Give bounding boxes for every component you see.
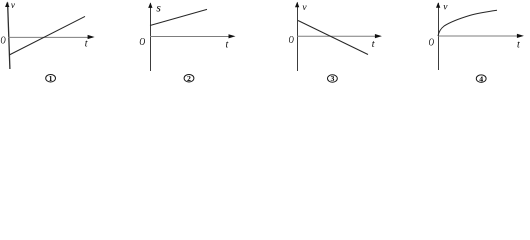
label circled 1 [46,74,56,82]
graph 3 v axis arrowhead [295,2,299,8]
graph 3 t axis [297,35,378,37]
label circled 3 [328,75,338,83]
graph 4 t axis arrowhead [517,34,524,38]
svg-text:t: t [85,39,88,50]
svg-text:t: t [517,39,520,50]
svg-text:t: t [226,39,229,50]
svg-text:4: 4 [479,74,483,83]
svg-text:2: 2 [187,74,191,83]
svg-text:1: 1 [49,74,53,83]
graph 4 v axis [438,3,440,70]
graph 2 displacement line [150,9,207,25]
graph 1 v axis [8,3,10,70]
graph 2 s axis arrowhead [148,2,152,8]
graph 2 t axis [150,36,232,38]
svg-text:O: O [139,36,145,48]
graph 1 t axis [8,36,93,38]
svg-text:O: O [1,36,6,47]
graph 1 velocity line [9,16,85,55]
svg-text:v: v [11,0,15,10]
graph 4 v axis arrowhead [436,2,440,8]
graph 1 v axis arrowhead [5,2,9,8]
svg-text:v: v [443,2,448,12]
graph 3 v axis [297,3,299,72]
graph 2 s axis [150,3,152,71]
graph 3 velocity line [298,21,368,55]
graph 1 t axis arrowhead [88,35,95,39]
svg-text:s: s [156,2,161,14]
svg-text:v: v [302,3,307,13]
label circled 2 [184,74,194,82]
svg-text:t: t [372,39,375,50]
graph 4 t axis [438,35,520,37]
graph 4 velocity curve [438,10,497,36]
svg-text:O: O [429,37,434,48]
graph 2 t axis arrowhead [229,34,236,38]
svg-text:O: O [289,35,294,46]
label circled 4 [476,75,486,83]
graph 3 t axis arrowhead [375,34,382,38]
svg-text:3: 3 [330,74,334,83]
